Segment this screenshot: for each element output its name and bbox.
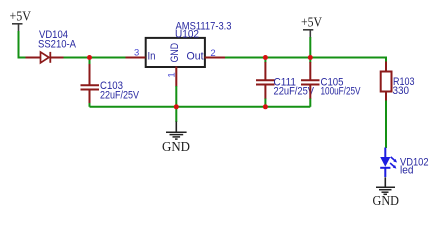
ground GND (under LED) [373, 177, 400, 208]
wire C111 to C105 junction [265, 57, 310, 59]
junction node C111 bottom [263, 104, 268, 109]
svg-text:22uF/25V: 22uF/25V [100, 90, 140, 102]
resistor R103 [381, 62, 392, 102]
U102 pin 1 (GND) [175, 67, 177, 87]
wire diode to C103 junction [64, 57, 90, 59]
emission arrow 1 [391, 157, 397, 163]
ground GND (under U102) [162, 122, 190, 155]
regulator U102 (AMS1117-3.3) [146, 38, 205, 67]
svg-text:100uF/25V: 100uF/25V [321, 85, 362, 97]
svg-text:22uF/25V: 22uF/25V [274, 85, 315, 97]
junction node at C103 top [87, 55, 92, 60]
wire +5V down to rail [309, 37, 311, 58]
capacitor C111 [256, 58, 275, 107]
svg-text:Out: Out [187, 51, 204, 63]
capacitor C103 [81, 58, 100, 107]
svg-text:330: 330 [393, 85, 410, 97]
wire Out pin to C111 junction [225, 57, 265, 59]
wire from +5V to diode [19, 31, 27, 58]
wire junction to U102 In pin [90, 57, 126, 59]
svg-text:2: 2 [210, 48, 215, 59]
svg-text:3: 3 [134, 48, 139, 59]
wire R103 to LED [385, 101, 387, 149]
svg-text:led: led [400, 165, 414, 177]
U102 pin 2 (Out) [205, 57, 226, 59]
wire junction down to GND symbol [175, 107, 177, 122]
junction node at C111 top [263, 55, 268, 60]
wire C105 junction to R103 corner [310, 58, 386, 63]
wire U102 GND pin to bottom rail [175, 86, 177, 107]
junction node at C105 top [308, 55, 313, 60]
svg-text:+5V: +5V [10, 8, 32, 23]
svg-text:+5V: +5V [301, 14, 322, 29]
U102 pin 3 (In) [126, 57, 146, 59]
emission arrow 2 [390, 163, 396, 169]
svg-text:AMS1117-3.3: AMS1117-3.3 [176, 21, 232, 33]
svg-text:In: In [148, 51, 156, 63]
LED VD102 [380, 148, 397, 178]
bottom ground rail wire [90, 106, 311, 108]
power port +5V (right) [301, 14, 322, 38]
svg-text:GND: GND [162, 139, 190, 154]
svg-text:GND: GND [373, 193, 400, 208]
junction node GND rail [174, 104, 179, 109]
diode VD104 [26, 52, 65, 63]
svg-text:GND: GND [169, 43, 181, 63]
svg-text:1: 1 [167, 72, 178, 77]
svg-text:SS210-A: SS210-A [38, 38, 77, 50]
capacitor C105 [301, 58, 320, 107]
power port +5V (left) [10, 8, 32, 31]
